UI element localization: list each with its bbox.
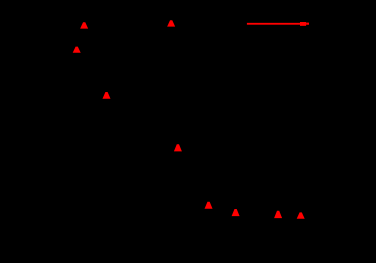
marker point P2	[167, 20, 175, 26]
marker point P3	[73, 47, 81, 53]
marker point P9	[297, 212, 305, 218]
marker point P1	[80, 22, 88, 28]
arrow shaft	[247, 23, 300, 25]
marker point P7	[232, 209, 240, 216]
marker point P4	[103, 92, 111, 99]
arrow head	[300, 22, 306, 26]
marker point P5	[174, 144, 182, 151]
marker point P6	[205, 202, 213, 209]
marker point P8	[274, 211, 282, 218]
arrow tip	[306, 23, 309, 25]
